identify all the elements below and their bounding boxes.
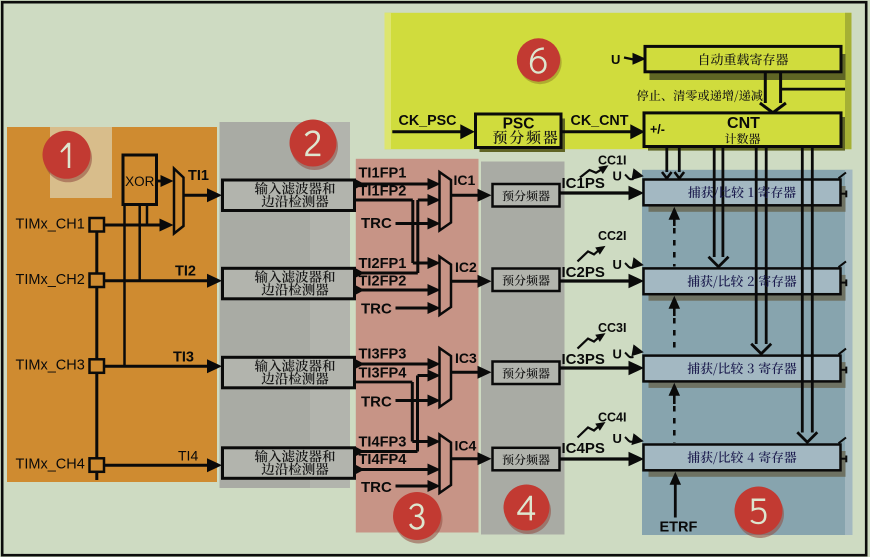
- wire ARR branch to right edge: [781, 88, 845, 91]
- svg-text:TRC: TRC: [361, 479, 392, 496]
- svg-text:IC1: IC1: [454, 172, 476, 188]
- svg-text:TI3FP4: TI3FP4: [359, 366, 408, 382]
- label prescaler (CJK) box 2: [503, 275, 550, 286]
- label prescaler (CJK) box 1: [503, 190, 550, 201]
- svg-text:U: U: [611, 52, 620, 67]
- ETRF arrow up to register 4: [670, 472, 682, 485]
- wire IC1PS to capture/compare register 1: [560, 191, 630, 194]
- wire IC3 mux output to prescaler 3: [451, 371, 479, 374]
- svg-text:TRC: TRC: [361, 215, 392, 232]
- input filter & edge detector box 4: [223, 448, 355, 479]
- label stop/clear/up-down count (CJK): [637, 90, 763, 102]
- region 5 highlight (blue, capture/compare registers): [642, 170, 853, 535]
- svg-text:TI3: TI3: [173, 350, 194, 366]
- PSC prescaler box shadow: [480, 119, 566, 153]
- svg-text:TIMx_CH4: TIMx_CH4: [16, 456, 85, 472]
- arrow pair into register 1 (open chevrons): [662, 172, 672, 178]
- zigzag interrupt arrow CC2I: [578, 250, 600, 262]
- svg-text:TIMx_CH1: TIMx_CH1: [16, 216, 85, 232]
- CNT bus pair to register 3: [755, 147, 758, 345]
- label input filter (CJK) box 4 line1: [255, 450, 335, 463]
- open arrow into register 3: [751, 344, 771, 354]
- svg-text:PSC: PSC: [503, 116, 535, 133]
- wire TI2FP2 to IC2 mux: [354, 289, 428, 292]
- region 6 dark right edge: [845, 13, 852, 149]
- svg-text:CK_CNT: CK_CNT: [571, 113, 629, 129]
- svg-text:TI4: TI4: [178, 448, 198, 464]
- IC3 input mux (trapezoid): [440, 348, 452, 407]
- wire auto-reload to CNT (double line): [764, 72, 767, 103]
- wire TI2FP1 crossover up to IC1 mux: [416, 200, 419, 273]
- svg-text:U: U: [613, 347, 622, 362]
- IC4 input mux (trapezoid): [440, 435, 452, 494]
- wire TI1FP1 to IC1 mux: [354, 183, 428, 186]
- XOR gate box: [123, 155, 157, 205]
- wire TRC to IC3 mux: [396, 399, 429, 402]
- svg-text:TI3FP3: TI3FP3: [359, 347, 407, 363]
- capture/compare register 2 box: [644, 268, 841, 294]
- capture/compare register 4 box: [644, 445, 841, 471]
- wire IC4 mux output to prescaler 4: [451, 457, 479, 460]
- wire CH3 to filter 3: [104, 365, 208, 368]
- CNT bus pair to register 4: [801, 147, 804, 433]
- wire TI3FP3 to IC3 mux: [354, 363, 428, 366]
- svg-text:TI1FP2: TI1FP2: [359, 184, 407, 200]
- capture/compare register 3 box shadow: [649, 362, 846, 388]
- label PSC prescaler (CJK): [493, 130, 557, 144]
- bus-width slash register 2: [839, 261, 847, 267]
- wire TI4FP4 to IC4 mux: [354, 468, 428, 471]
- region 2 highlight (gray, input filters): [220, 122, 311, 488]
- dashed arrow register2 area up to register 1: [669, 207, 681, 220]
- svg-text:U: U: [613, 257, 622, 272]
- prescaler box IC2PS: [493, 269, 560, 292]
- svg-text:CC4I: CC4I: [598, 411, 626, 425]
- svg-text:IC2: IC2: [455, 259, 477, 275]
- label capture/compare 4 register (CJK): [688, 451, 797, 464]
- capture/compare register 1 box shadow: [649, 186, 846, 212]
- region 1 tan sub-highlight: [50, 127, 112, 198]
- PSC prescaler box: [476, 114, 562, 148]
- right stub register 3: [840, 369, 847, 371]
- wire TI1FP2 crossover down to IC2 mux: [354, 199, 413, 202]
- wire CK_CNT to CNT: [561, 130, 632, 133]
- region 5 lighter right band: [845, 170, 853, 535]
- label edge detector (CJK) box 1 line2: [262, 195, 329, 208]
- wire TI1 mux output to filter 1: [184, 194, 209, 197]
- svg-text:U: U: [613, 169, 622, 184]
- wire XOR input from CH2: [138, 205, 141, 281]
- label input filter (CJK) box 1 line1: [255, 182, 335, 195]
- label input filter (CJK) box 2 line1: [255, 270, 335, 283]
- svg-text:U: U: [613, 431, 622, 446]
- wire XOR input from CH1: [146, 205, 149, 226]
- svg-text:IC1PS: IC1PS: [562, 175, 605, 192]
- label edge detector (CJK) box 4 line2: [262, 463, 329, 476]
- squiggle arrow U into register 3 corner: [625, 353, 634, 358]
- svg-text:IC3PS: IC3PS: [562, 351, 605, 368]
- region 2 highlight lighter band: [310, 122, 350, 488]
- label edge detector (CJK) box 3 line2: [262, 372, 329, 385]
- right stub register 4: [840, 458, 847, 460]
- bus-width slash register 4: [839, 438, 847, 444]
- capture/compare register 4 box shadow: [649, 451, 846, 477]
- wire TRC to IC1 mux: [396, 222, 429, 225]
- wire TI2FP1 from filter 2: [354, 272, 418, 275]
- main vertical wire joining channel pins: [95, 231, 98, 480]
- label edge detector (CJK) box 2 line2: [262, 283, 329, 296]
- svg-text:TI2FP2: TI2FP2: [359, 274, 407, 290]
- label input filter (CJK) box 3 line1: [255, 359, 335, 372]
- region 4 highlight (gray, prescalers): [481, 162, 565, 535]
- svg-text:IC4: IC4: [455, 438, 477, 454]
- dashed arrow up to register 2: [669, 296, 681, 309]
- label CNT counter (CJK): [725, 133, 760, 144]
- badge circle 4: [505, 488, 551, 534]
- input filter & edge detector box 2: [223, 268, 355, 299]
- CNT counter box shadow: [648, 117, 845, 151]
- wire XOR input from CH3: [123, 205, 126, 367]
- prescaler box IC4PS: [493, 448, 560, 471]
- region 3 highlight (salmon, IC muxes): [356, 159, 479, 533]
- svg-text:TI2: TI2: [175, 264, 196, 280]
- wire IC2 mux output to prescaler 2: [451, 280, 479, 283]
- badge circle 5: [736, 490, 784, 538]
- svg-text:ETRF: ETRF: [660, 520, 698, 536]
- squiggle arrow U into register 2 corner: [625, 263, 634, 268]
- label capture/compare 3 register (CJK): [688, 362, 797, 375]
- wire IC3PS to capture/compare register 3: [560, 366, 630, 369]
- label prescaler (CJK) box 4: [503, 454, 550, 465]
- label capture/compare 2 register (CJK): [688, 275, 797, 288]
- right stub register 2: [840, 282, 847, 284]
- wire IC4PS to capture/compare register 4: [560, 457, 630, 460]
- capture/compare register 1 box: [644, 180, 841, 206]
- input filter & edge detector box 3: [223, 357, 355, 388]
- CNT counter box: [644, 113, 841, 147]
- CNT bus pair to register 2: [713, 147, 716, 258]
- arrow auto-reload to CNT (open): [760, 103, 786, 113]
- badge circle 1: [44, 134, 92, 182]
- IC2 input mux (trapezoid): [440, 257, 452, 316]
- bus-width slash register 1: [839, 173, 847, 179]
- svg-text:TI1FP1: TI1FP1: [359, 166, 407, 182]
- wire CH4 to filter 4: [104, 464, 208, 467]
- capture/compare register 3 box: [644, 356, 841, 382]
- pin square CH3: [90, 359, 105, 373]
- svg-text:TI2FP1: TI2FP1: [359, 256, 407, 272]
- open arrow into register 2: [709, 257, 729, 267]
- wire TI3FP4 crossover down to IC4 mux: [354, 381, 412, 384]
- svg-text:IC3: IC3: [455, 350, 477, 366]
- svg-text:TIMx_CH3: TIMx_CH3: [16, 357, 85, 373]
- input filter & edge detector box 1: [223, 180, 355, 211]
- prescaler box IC1PS: [493, 184, 560, 207]
- svg-text:TRC: TRC: [361, 301, 392, 318]
- svg-text:+/-: +/-: [650, 123, 665, 137]
- label auto-reload register (CJK): [700, 53, 788, 65]
- region 1 highlight (orange, input channels): [7, 127, 217, 482]
- svg-text:TRC: TRC: [361, 394, 392, 411]
- svg-text:CC2I: CC2I: [598, 229, 626, 243]
- svg-text:CK_PSC: CK_PSC: [399, 113, 457, 129]
- wire CH2 to filter 2: [104, 279, 208, 282]
- wire TRC to IC4 mux: [396, 485, 429, 488]
- region 6 highlight (yellow, counter): [385, 13, 852, 149]
- wire XOR output to TI1 mux: [157, 180, 162, 183]
- wire U to auto-reload register: [624, 58, 634, 60]
- svg-text:CC1I: CC1I: [598, 154, 626, 168]
- zigzag interrupt arrow CC1I: [580, 170, 602, 178]
- wire TI4FP3 from filter 4: [354, 450, 418, 453]
- pin square CH1: [90, 218, 105, 232]
- auto-reload register box: [645, 46, 841, 71]
- wire IC1 mux output to prescaler 1: [451, 194, 479, 197]
- wire TRC to IC2 mux: [396, 307, 429, 310]
- right stub register 1: [840, 193, 847, 195]
- svg-text:XOR: XOR: [125, 174, 155, 189]
- wire IC2PS to capture/compare register 2: [560, 279, 630, 282]
- svg-text:TI4FP3: TI4FP3: [359, 435, 407, 451]
- svg-text:CNT: CNT: [727, 115, 760, 132]
- svg-text:TI4FP4: TI4FP4: [359, 452, 408, 468]
- svg-text:CC3I: CC3I: [598, 321, 626, 335]
- badge circle 2: [291, 123, 338, 170]
- auto-reload register box shadow: [650, 54, 846, 80]
- capture/compare register 2 box shadow: [649, 275, 846, 301]
- label prescaler (CJK) box 3: [503, 368, 550, 379]
- svg-text:IC2PS: IC2PS: [562, 264, 605, 281]
- squiggle arrow U into register 4 corner: [625, 437, 634, 442]
- badge circle 3: [395, 496, 443, 544]
- dashed arrow up to register 3: [669, 383, 681, 396]
- wire CK_PSC to PSC: [392, 130, 462, 133]
- svg-text:TIMx_CH2: TIMx_CH2: [16, 272, 85, 288]
- zigzag interrupt arrow CC4I: [578, 426, 600, 438]
- wire CH1 to TI1 mux: [104, 224, 160, 227]
- squiggle arrow U into register 1 corner: [625, 175, 634, 180]
- bus-width slash register 3: [839, 349, 847, 355]
- svg-text:IC4PS: IC4PS: [562, 440, 605, 457]
- CNT bus pair to register 1: [665, 147, 668, 173]
- TI1 input mux (trapezoid): [174, 169, 184, 234]
- open arrow into register 4: [797, 432, 817, 442]
- wire TI4FP3 crossover up to IC3 mux: [416, 376, 419, 452]
- pin square CH4: [90, 458, 105, 472]
- prescaler box IC3PS: [493, 362, 560, 385]
- IC1 input mux (trapezoid): [440, 172, 452, 231]
- svg-text:TI1: TI1: [188, 168, 209, 184]
- region 6 light left edge: [385, 13, 392, 149]
- zigzag interrupt arrow CC3I: [578, 337, 600, 349]
- pin square CH2: [90, 274, 105, 288]
- badge circle 6: [518, 41, 561, 84]
- label capture/compare 1 register (CJK): [688, 186, 796, 199]
